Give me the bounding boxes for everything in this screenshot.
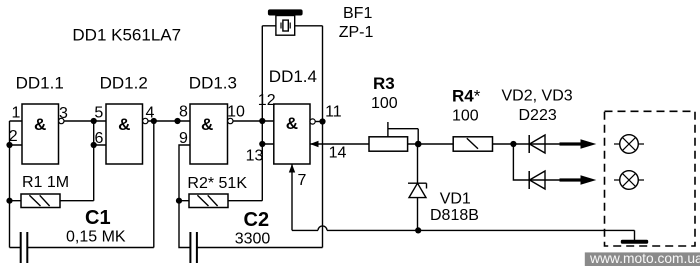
wire DD1.4 input rail [262,26,274,201]
dashed enclosure box [605,111,696,246]
label C2 [244,209,270,231]
label C2 value [235,231,271,248]
wire DD1.2 output to DD1.3 input [148,120,190,122]
arrow to lamp 2 [560,175,597,184]
node diode branch junction [510,141,516,147]
svg-text:DD1.1: DD1.1 [16,74,64,93]
svg-text:D818B: D818B [430,207,479,224]
svg-text:R1 1M: R1 1M [22,174,69,191]
label R1 1M [22,174,69,191]
node R2 left junction [176,198,182,204]
svg-text:100: 100 [371,95,398,112]
lamp HL1 [614,135,644,154]
node pin 6 junction [91,142,97,148]
label VD1 [440,191,471,208]
node pin2 junction [6,142,12,148]
svg-text:&: & [34,115,46,134]
svg-text:10: 10 [227,104,245,121]
label DD1.4 [269,67,317,86]
wire DD1.3 output to DD1.4 inputs [233,120,274,122]
diode VD2 [513,135,559,153]
label D223 [519,107,557,124]
svg-text:6: 6 [95,130,104,147]
svg-text:DD1.4: DD1.4 [269,67,317,86]
pin 2 [9,128,18,145]
node R3/VD1 junction [415,141,422,148]
node pin 5 junction [91,118,97,124]
arrow to lamp 1 [560,139,597,148]
pin 7 [298,172,307,189]
resistor R1 [10,194,94,208]
wire DD1.1 output to DD1.2 inputs [64,120,106,122]
pin 12 [258,92,276,109]
svg-text:2: 2 [9,128,18,145]
svg-text:&: & [286,114,298,133]
node pin 8 junction [174,118,180,124]
capacitor C2 [190,122,322,264]
pin 10 [227,104,245,121]
svg-text:DD1.3: DD1.3 [189,74,237,93]
label D818B [430,207,479,224]
label DD1 K561LA7 [72,25,181,44]
wire R3 to R4 [418,143,453,145]
resistor R3 (with tap) [369,122,418,151]
gate DD1.4 [274,104,315,164]
pin 1 [12,105,21,122]
gate DD1.1 [22,104,64,164]
wire lower diode branch [513,144,559,180]
node R1 left junction [6,198,12,204]
zener diode VD1 [408,144,427,230]
svg-text:VD2, VD3: VD2, VD3 [502,88,573,105]
label C1 [85,207,111,229]
node VD1 ground junction [415,227,421,233]
svg-text:R4*: R4* [452,87,481,106]
svg-text:VD1: VD1 [440,191,471,208]
wire DD1.4 output [315,121,322,123]
svg-text:5: 5 [94,105,103,122]
label ZP-1 [339,24,374,41]
svg-text:11: 11 [325,104,342,121]
svg-text:8: 8 [179,104,188,121]
label C1 value [66,229,126,246]
svg-text:ZP-1: ZP-1 [339,24,374,41]
wire left input rail of DD1.1 [10,121,23,248]
svg-text:R2* 51K: R2* 51K [187,175,247,192]
pin 3 [59,105,68,122]
resistor R4 [453,137,513,151]
svg-text:C1: C1 [85,207,111,229]
label DD1.3 [189,74,237,93]
svg-text:D223: D223 [519,107,557,124]
pin 14 [329,145,347,162]
buzzer BF1 [262,9,322,121]
ground [621,240,648,244]
resistor R2 [179,194,262,208]
svg-text:12: 12 [258,92,276,109]
pin 14 wire with left arrow [310,141,369,147]
label R2* 51K [187,175,247,192]
watermark bar [585,251,700,266]
gate DD1.2 [106,104,148,164]
svg-text:C2: C2 [244,209,270,231]
svg-text:www.moto.com.ua: www.moto.com.ua [589,251,700,266]
svg-text:100: 100 [452,108,479,125]
wire DD1.2 input rail [94,121,106,201]
pin 6 [95,130,104,147]
node pin 12 junction [259,118,265,124]
pin 11 [325,104,342,121]
svg-text:&: & [118,115,130,134]
ground wire with hop [292,226,635,240]
svg-text:0,15 MK: 0,15 MK [66,229,126,246]
pin 4 [146,105,155,122]
node C1 feedback junction [151,118,157,124]
pin 13 [246,148,264,165]
label R4* [452,87,481,106]
svg-text:13: 13 [246,148,264,165]
pin 8 [179,104,188,121]
pin 5 [94,105,103,122]
label DD1.2 [100,74,148,93]
label VD2, VD3 [502,88,573,105]
svg-text:3300: 3300 [235,231,271,248]
node pin 13 junction [259,141,265,147]
svg-text:R3: R3 [373,74,395,93]
svg-text:1: 1 [12,105,21,122]
node pin 11 junction [319,118,325,124]
svg-text:&: & [201,115,213,134]
pin 7 wire with up arrow [289,164,295,230]
svg-text:14: 14 [329,145,347,162]
wire pin 9 to R2/C2 rail [179,145,190,248]
label R4 value [452,108,479,125]
diode VD3 [529,171,545,189]
svg-text:DD1.2: DD1.2 [100,74,148,93]
label DD1.1 [16,74,64,93]
label BF1 [343,5,372,22]
lamp HL2 [614,171,644,190]
gate DD1.3 [190,104,233,164]
svg-text:7: 7 [298,172,307,189]
capacitor C1 [10,121,154,263]
label R3 [373,74,395,93]
svg-text:BF1: BF1 [343,5,372,22]
label R3 value [371,95,398,112]
pin 9 [179,130,188,147]
svg-text:3: 3 [59,105,68,122]
svg-text:DD1 K561LA7: DD1 K561LA7 [72,25,181,44]
